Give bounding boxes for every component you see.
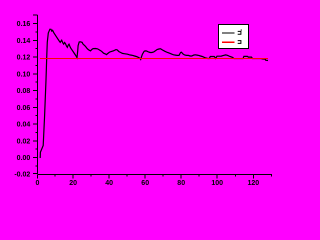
svg-text:-0.02: -0.02 [14,172,30,179]
svg-text:20: 20 [69,180,77,187]
svg-text:100: 100 [211,180,223,187]
svg-text:0.12: 0.12 [17,55,31,62]
svg-text:60: 60 [141,180,149,187]
svg-text:120: 120 [247,180,259,187]
svg-text:0: 0 [36,180,40,187]
svg-text:0.04: 0.04 [17,122,31,129]
svg-text:0.02: 0.02 [17,138,31,145]
svg-text:0.06: 0.06 [17,105,31,112]
svg-text:0.00: 0.00 [17,155,31,162]
svg-text:0.16: 0.16 [17,21,31,28]
svg-text:0.14: 0.14 [17,38,31,45]
svg-text:0.08: 0.08 [17,88,31,95]
svg-text:80: 80 [177,180,185,187]
svg-text:40: 40 [105,180,113,187]
svg-text:0.10: 0.10 [17,71,31,78]
